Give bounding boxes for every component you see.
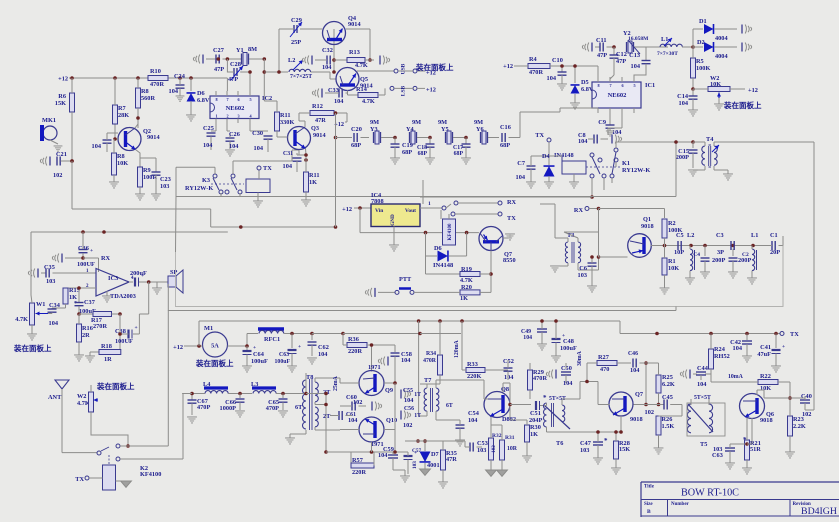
- svg-text:10R: 10R: [507, 446, 518, 452]
- svg-text:B: B: [647, 509, 651, 515]
- svg-text:68P: 68P: [418, 151, 428, 157]
- svg-text:R25: R25: [662, 374, 673, 381]
- svg-text:NE602: NE602: [226, 105, 245, 112]
- resistor R14 4.7K: [348, 94, 359, 96]
- svg-text:装在面板上: 装在面板上: [415, 62, 454, 72]
- resistor R1 10K: [662, 258, 667, 275]
- svg-text:C26: C26: [229, 131, 240, 138]
- wire Q7 emitter: [620, 416, 622, 432]
- svg-text:R19: R19: [461, 266, 472, 273]
- svg-text:47P: 47P: [214, 66, 224, 73]
- contact K2 down (TX): [116, 457, 120, 461]
- ground (C17): [461, 157, 471, 159]
- svg-text:68P: 68P: [402, 149, 412, 156]
- svg-text:*: *: [543, 394, 547, 402]
- svg-text:C34: C34: [49, 302, 61, 309]
- svg-text:4.7K: 4.7K: [15, 316, 28, 323]
- contact LSB: [378, 94, 385, 96]
- svg-text:104: 104: [49, 320, 59, 327]
- svg-text:104: 104: [504, 374, 514, 381]
- capacitor C67 470P: [191, 394, 193, 401]
- svg-text:68P: 68P: [454, 151, 464, 157]
- capacitor C55 104: [400, 390, 402, 399]
- svg-text:C25: C25: [203, 125, 214, 132]
- wire Q3 emitter node: [305, 149, 308, 156]
- svg-text:R9: R9: [143, 167, 151, 174]
- ground (C42): [742, 355, 752, 357]
- resistor R12 47R: [310, 111, 334, 116]
- svg-text:9M: 9M: [438, 119, 447, 126]
- svg-text:7×7×25T: 7×7×25T: [290, 74, 312, 80]
- svg-text:R57: R57: [352, 457, 363, 464]
- shield cap (C33): [321, 89, 323, 98]
- resistor R4 470R: [528, 64, 550, 69]
- wire Q8 base: [455, 379, 484, 381]
- wire TX line: [620, 333, 780, 335]
- diode D7 4001: [420, 452, 431, 462]
- capacitor C17 68P: [465, 138, 467, 145]
- wire NE602 Vcc: [207, 77, 227, 79]
- relay K2 KF4100: [443, 219, 456, 245]
- ground (C54): [455, 439, 465, 441]
- relay K1 coil: [562, 161, 586, 174]
- resistor R36 220R: [347, 343, 367, 348]
- svg-text:5T×5T: 5T×5T: [694, 395, 711, 401]
- svg-text:MK1: MK1: [42, 117, 56, 124]
- svg-text:SP: SP: [170, 269, 178, 276]
- wire Q8 collector: [502, 383, 504, 392]
- svg-text:C13: C13: [629, 52, 640, 59]
- svg-text:3P: 3P: [717, 249, 724, 256]
- svg-text:1R: 1R: [104, 356, 112, 363]
- svg-text:1K: 1K: [530, 431, 538, 438]
- svg-text:RFC1: RFC1: [264, 336, 280, 343]
- svg-text:C30: C30: [252, 130, 263, 137]
- svg-text:+12: +12: [503, 63, 513, 70]
- ground (R1): [660, 287, 670, 289]
- svg-text:104: 104: [516, 174, 526, 181]
- svg-text:R14: R14: [356, 86, 368, 93]
- ground (D4): [544, 181, 554, 183]
- svg-text:BD4IGH: BD4IGH: [801, 506, 837, 517]
- svg-text:C63: C63: [279, 352, 289, 358]
- resistor R18 1R: [90, 351, 99, 353]
- svg-text:Vin: Vin: [375, 208, 383, 214]
- svg-text:Q3: Q3: [311, 125, 319, 132]
- svg-text:1K: 1K: [309, 179, 317, 186]
- svg-text:R1: R1: [668, 258, 676, 265]
- transistor Q3 9014: [288, 127, 311, 150]
- svg-text:D6: D6: [197, 90, 205, 97]
- svg-text:470P: 470P: [197, 404, 210, 411]
- wire +12 rail: [72, 77, 207, 79]
- svg-text:C11: C11: [596, 37, 607, 44]
- svg-text:R18: R18: [101, 343, 112, 350]
- svg-text:1T: 1T: [414, 392, 421, 398]
- svg-text:C41: C41: [760, 344, 771, 351]
- diode D1 4004: [692, 29, 694, 47]
- ground (C57): [400, 475, 410, 477]
- svg-text:104: 104: [378, 452, 388, 459]
- transistor Q10 1971: [359, 417, 384, 442]
- capacitor C42 104: [746, 334, 748, 341]
- ground (C64): [242, 365, 252, 367]
- ground (K2): [116, 480, 123, 482]
- svg-text:4.7K: 4.7K: [77, 400, 90, 407]
- svg-text:C9: C9: [598, 119, 606, 126]
- svg-text:L2: L2: [687, 232, 694, 239]
- svg-text:装在面板上: 装在面板上: [13, 343, 52, 353]
- capacitor C2 200P: [732, 249, 734, 256]
- svg-text:100UF: 100UF: [77, 261, 95, 268]
- wire Q6 out right: [805, 409, 814, 411]
- svg-text:220R: 220R: [352, 469, 366, 476]
- svg-text:104: 104: [630, 367, 640, 374]
- svg-text:10K: 10K: [668, 265, 679, 272]
- svg-text:10mA: 10mA: [728, 374, 744, 380]
- svg-text:R31: R31: [505, 435, 515, 441]
- svg-text:C62: C62: [318, 344, 329, 351]
- zener D5 6.8V: [571, 85, 580, 94]
- svg-text:M1: M1: [204, 325, 213, 332]
- svg-text:8550: 8550: [503, 257, 516, 264]
- resistor R19 4.7K: [425, 256, 427, 274]
- ground (R9): [135, 193, 145, 195]
- svg-text:C40: C40: [801, 393, 812, 400]
- ground (IC4): [393, 227, 395, 246]
- title block frame: [641, 481, 839, 483]
- svg-text:R22: R22: [760, 373, 771, 380]
- svg-text:103: 103: [578, 272, 587, 279]
- svg-text:68P: 68P: [351, 142, 361, 149]
- svg-text:Size: Size: [644, 502, 653, 507]
- ground (L1b): [747, 277, 757, 279]
- svg-text:102: 102: [353, 399, 362, 406]
- svg-text:8M: 8M: [248, 46, 257, 53]
- contact USB: [357, 70, 394, 72]
- shield cap (C27 left): [202, 55, 204, 64]
- ground (T8 pri): [289, 434, 291, 438]
- resistor R5 100K: [691, 58, 696, 78]
- ground (C67): [187, 416, 197, 418]
- resistor R20 1K: [460, 290, 480, 295]
- diode D3 IN4148: [425, 233, 427, 256]
- svg-text:104: 104: [401, 357, 411, 364]
- svg-text:10P: 10P: [674, 249, 684, 256]
- svg-text:270R: 270R: [93, 323, 107, 330]
- ground (C6): [587, 285, 597, 287]
- relay K3 coil: [246, 179, 270, 193]
- svg-text:+12: +12: [748, 87, 758, 94]
- svg-text:5A: 5A: [211, 343, 219, 350]
- capacitor C61 104: [338, 411, 340, 420]
- svg-text:102: 102: [53, 172, 62, 179]
- svg-text:+12: +12: [58, 76, 68, 83]
- svg-text:RX: RX: [574, 207, 584, 214]
- wire box outline: [176, 246, 784, 307]
- ground (T4): [723, 173, 733, 175]
- svg-text:K1: K1: [622, 160, 630, 167]
- svg-text:L1: L1: [661, 36, 668, 43]
- svg-text:330K: 330K: [280, 119, 294, 126]
- relay K1 contacts: [590, 153, 594, 157]
- svg-text:470R: 470R: [533, 375, 547, 382]
- svg-text:104: 104: [318, 351, 328, 358]
- zener D6 6.8V: [187, 93, 196, 102]
- inductor RFC1: [258, 327, 284, 330]
- svg-text:C44: C44: [697, 365, 709, 372]
- svg-text:470R: 470R: [529, 69, 543, 76]
- resistor R27 470: [597, 361, 617, 366]
- inductor L4: [204, 386, 228, 389]
- resistor R30 1K: [525, 425, 530, 442]
- capacitor C19 68P: [394, 138, 396, 145]
- svg-text:104: 104: [733, 345, 743, 352]
- ground (C63): [287, 365, 297, 367]
- svg-text:9014: 9014: [147, 134, 160, 141]
- capacitor C63 100uF: [291, 334, 293, 349]
- svg-text:+: +: [90, 248, 93, 254]
- ground (IC3): [102, 295, 112, 297]
- svg-text:100K: 100K: [696, 65, 710, 72]
- capacitor C64 100uF: [246, 346, 248, 350]
- resistor R34 470R: [438, 355, 443, 375]
- svg-text:6T: 6T: [295, 404, 303, 411]
- svg-text:3: 3: [238, 114, 240, 119]
- svg-text:Q10: Q10: [386, 417, 397, 424]
- svg-text:K3: K3: [202, 177, 210, 184]
- ground (W1): [27, 333, 37, 335]
- wire Q11 emitter: [490, 251, 492, 293]
- svg-text:8: 8: [216, 97, 218, 102]
- ground (Q11): [503, 237, 510, 239]
- capacitor C57 electrolytic: [404, 455, 413, 457]
- svg-text:560R: 560R: [141, 95, 155, 102]
- svg-text:200P: 200P: [712, 257, 725, 264]
- resistor R57 220R: [350, 452, 352, 466]
- svg-text:TX: TX: [507, 215, 516, 222]
- svg-text:R13: R13: [349, 49, 360, 56]
- svg-text:C23: C23: [160, 176, 171, 183]
- svg-text:104: 104: [254, 145, 264, 152]
- capacitor C30 104: [249, 123, 251, 131]
- svg-text:C54: C54: [468, 410, 480, 417]
- svg-text:28K: 28K: [118, 112, 129, 119]
- svg-text:装在面板上: 装在面板上: [195, 358, 234, 368]
- svg-text:C47: C47: [580, 440, 591, 447]
- svg-text:200uF: 200uF: [130, 270, 147, 277]
- ground (R16): [74, 354, 84, 356]
- contact K2 up (RX): [116, 444, 120, 448]
- svg-text:9018: 9018: [641, 223, 654, 230]
- wire RX bus: [176, 196, 676, 198]
- wire T4 to right bus: [724, 141, 814, 143]
- svg-text:C32: C32: [322, 47, 333, 54]
- ground (R35): [438, 481, 448, 483]
- wire D7 feed: [443, 440, 465, 442]
- svg-text:KF4100: KF4100: [448, 223, 453, 240]
- wire y209 bus: [72, 208, 211, 210]
- capacitor C23 103: [152, 171, 161, 173]
- svg-text:R11: R11: [280, 112, 291, 119]
- svg-text:104: 104: [631, 63, 641, 70]
- svg-text:T7: T7: [424, 377, 431, 384]
- ground (C65): [278, 410, 288, 412]
- ground (C4): [700, 271, 710, 273]
- svg-text:104: 104: [169, 88, 179, 95]
- svg-text:2.2K: 2.2K: [793, 423, 806, 430]
- ground (R8b): [109, 181, 119, 183]
- svg-text:装在面板上: 装在面板上: [96, 381, 135, 391]
- ground (R18): [85, 355, 95, 357]
- ground (C47): [593, 457, 603, 459]
- transistor Q2 9014: [118, 128, 141, 151]
- svg-text:C16: C16: [500, 124, 511, 131]
- svg-text:103: 103: [160, 183, 169, 190]
- wire IC1 out down: [621, 110, 623, 128]
- svg-text:C4: C4: [693, 252, 700, 258]
- svg-text:R8: R8: [117, 153, 125, 160]
- ground (D7): [420, 469, 431, 475]
- transistor Q8 D882: [484, 392, 510, 418]
- wire bus2 drops: [460, 319, 464, 323]
- svg-text:470R: 470R: [150, 81, 164, 88]
- svg-text:4.7K: 4.7K: [355, 62, 368, 69]
- wire Q7 base: [580, 381, 598, 383]
- shield cap (C36): [61, 254, 63, 263]
- capacitor C32 104: [311, 56, 313, 65]
- svg-text:4004: 4004: [715, 53, 728, 60]
- ground (R32): [486, 470, 497, 476]
- ground (C23): [151, 193, 161, 195]
- svg-text:D5: D5: [581, 79, 589, 86]
- svg-text:51R: 51R: [750, 446, 761, 453]
- svg-text:RX: RX: [507, 199, 517, 206]
- transistor Q6 9018: [740, 394, 765, 419]
- svg-text:D1: D1: [699, 18, 707, 25]
- svg-text:L1: L1: [751, 232, 758, 239]
- resistor R2 100K: [662, 219, 667, 238]
- svg-text:200P: 200P: [738, 257, 751, 264]
- resistor R8b 10K: [112, 153, 117, 175]
- svg-text:220R: 220R: [348, 348, 362, 355]
- svg-text:15K: 15K: [619, 446, 630, 453]
- svg-text:104: 104: [348, 417, 358, 424]
- transistor Q11 8550: [479, 227, 503, 251]
- capacitor C22 104: [103, 139, 112, 141]
- wire Q1 base node: [598, 257, 600, 270]
- svg-text:R6: R6: [58, 93, 66, 100]
- svg-text:1: 1: [428, 201, 431, 207]
- svg-text:T5: T5: [700, 441, 707, 448]
- svg-text:104: 104: [92, 143, 102, 150]
- svg-text:100uF: 100uF: [251, 358, 268, 365]
- svg-text:4.7K: 4.7K: [362, 98, 375, 105]
- capacitor C7 104: [527, 165, 536, 167]
- capacitor C15 200P: [676, 141, 693, 143]
- svg-text:W2: W2: [77, 393, 86, 400]
- ground (T3): [550, 265, 560, 267]
- resistor R32 102: [489, 438, 494, 460]
- svg-text:104: 104: [334, 98, 344, 105]
- capacitor C41 47uF: [775, 334, 777, 349]
- capacitor C34 104: [48, 308, 57, 310]
- ground (mic): [54, 145, 63, 147]
- svg-text:470P: 470P: [266, 405, 279, 412]
- svg-text:C20: C20: [351, 126, 362, 133]
- svg-text:C57: C57: [412, 448, 421, 454]
- ground (R23): [785, 451, 795, 453]
- capacitor C58 104: [372, 344, 396, 346]
- svg-text:R20: R20: [461, 284, 472, 291]
- wire Q2 emitter: [136, 150, 141, 168]
- svg-text:RH52: RH52: [714, 353, 730, 360]
- IC U2 NE602: [210, 96, 259, 119]
- svg-text:TX: TX: [263, 165, 272, 172]
- resistor R13 4.7K: [334, 59, 347, 61]
- svg-text:C3: C3: [716, 232, 724, 239]
- wire K3 wiring: [214, 167, 216, 174]
- wire IC4 top bus: [422, 180, 424, 204]
- wire relay feed: [465, 231, 469, 235]
- svg-text:C64: C64: [253, 351, 265, 358]
- svg-text:TX: TX: [535, 132, 544, 139]
- capacitor C50 104: [555, 370, 557, 379]
- svg-text:104: 104: [697, 381, 707, 388]
- svg-text:7: 7: [227, 97, 229, 102]
- svg-text:Title: Title: [644, 485, 655, 490]
- svg-text:L2: L2: [288, 57, 295, 64]
- svg-text:PTT: PTT: [399, 276, 412, 283]
- capacitor C14 104: [692, 89, 694, 96]
- ground (W2b): [714, 103, 724, 105]
- svg-text:104: 104: [404, 397, 414, 404]
- ground (K3): [253, 200, 263, 202]
- resistor R8 560R: [136, 88, 141, 108]
- svg-text:104: 104: [679, 100, 689, 107]
- diode D2 4004: [693, 46, 703, 48]
- shield cap (C11): [591, 43, 593, 52]
- amplifier IC3 TDA2003: [96, 269, 129, 297]
- resistor R26 1.5K: [656, 416, 661, 435]
- wire Y1 node down: [263, 59, 265, 101]
- svg-text:6T: 6T: [446, 403, 453, 409]
- wire K1 to ground bus: [591, 178, 593, 197]
- svg-text:C37: C37: [84, 299, 95, 306]
- wire K1 right to T4: [615, 142, 617, 148]
- svg-text:104: 104: [563, 380, 573, 387]
- capacitor C48 100uF: [552, 338, 561, 340]
- svg-text:C14: C14: [677, 93, 689, 100]
- relay K3 contacts: [213, 174, 217, 178]
- svg-text:装在面板上: 装在面板上: [723, 100, 762, 110]
- svg-text:5: 5: [634, 83, 636, 88]
- svg-text:2: 2: [227, 114, 229, 119]
- ground (D6): [186, 114, 196, 116]
- ground (R31): [497, 470, 508, 476]
- transistor Q5 9014: [336, 68, 359, 91]
- svg-text:RY12W-K: RY12W-K: [185, 185, 213, 192]
- svg-text:1: 1: [216, 114, 218, 119]
- wire Q1 collector row: [651, 245, 758, 247]
- ground (L2b): [685, 277, 695, 279]
- ground (C66): [235, 410, 245, 412]
- svg-text:1000P: 1000P: [220, 405, 237, 412]
- svg-text:9018: 9018: [760, 417, 773, 424]
- svg-text:Q1: Q1: [643, 216, 651, 223]
- svg-text:LSB: LSB: [401, 85, 407, 96]
- svg-text:4001: 4001: [427, 462, 440, 469]
